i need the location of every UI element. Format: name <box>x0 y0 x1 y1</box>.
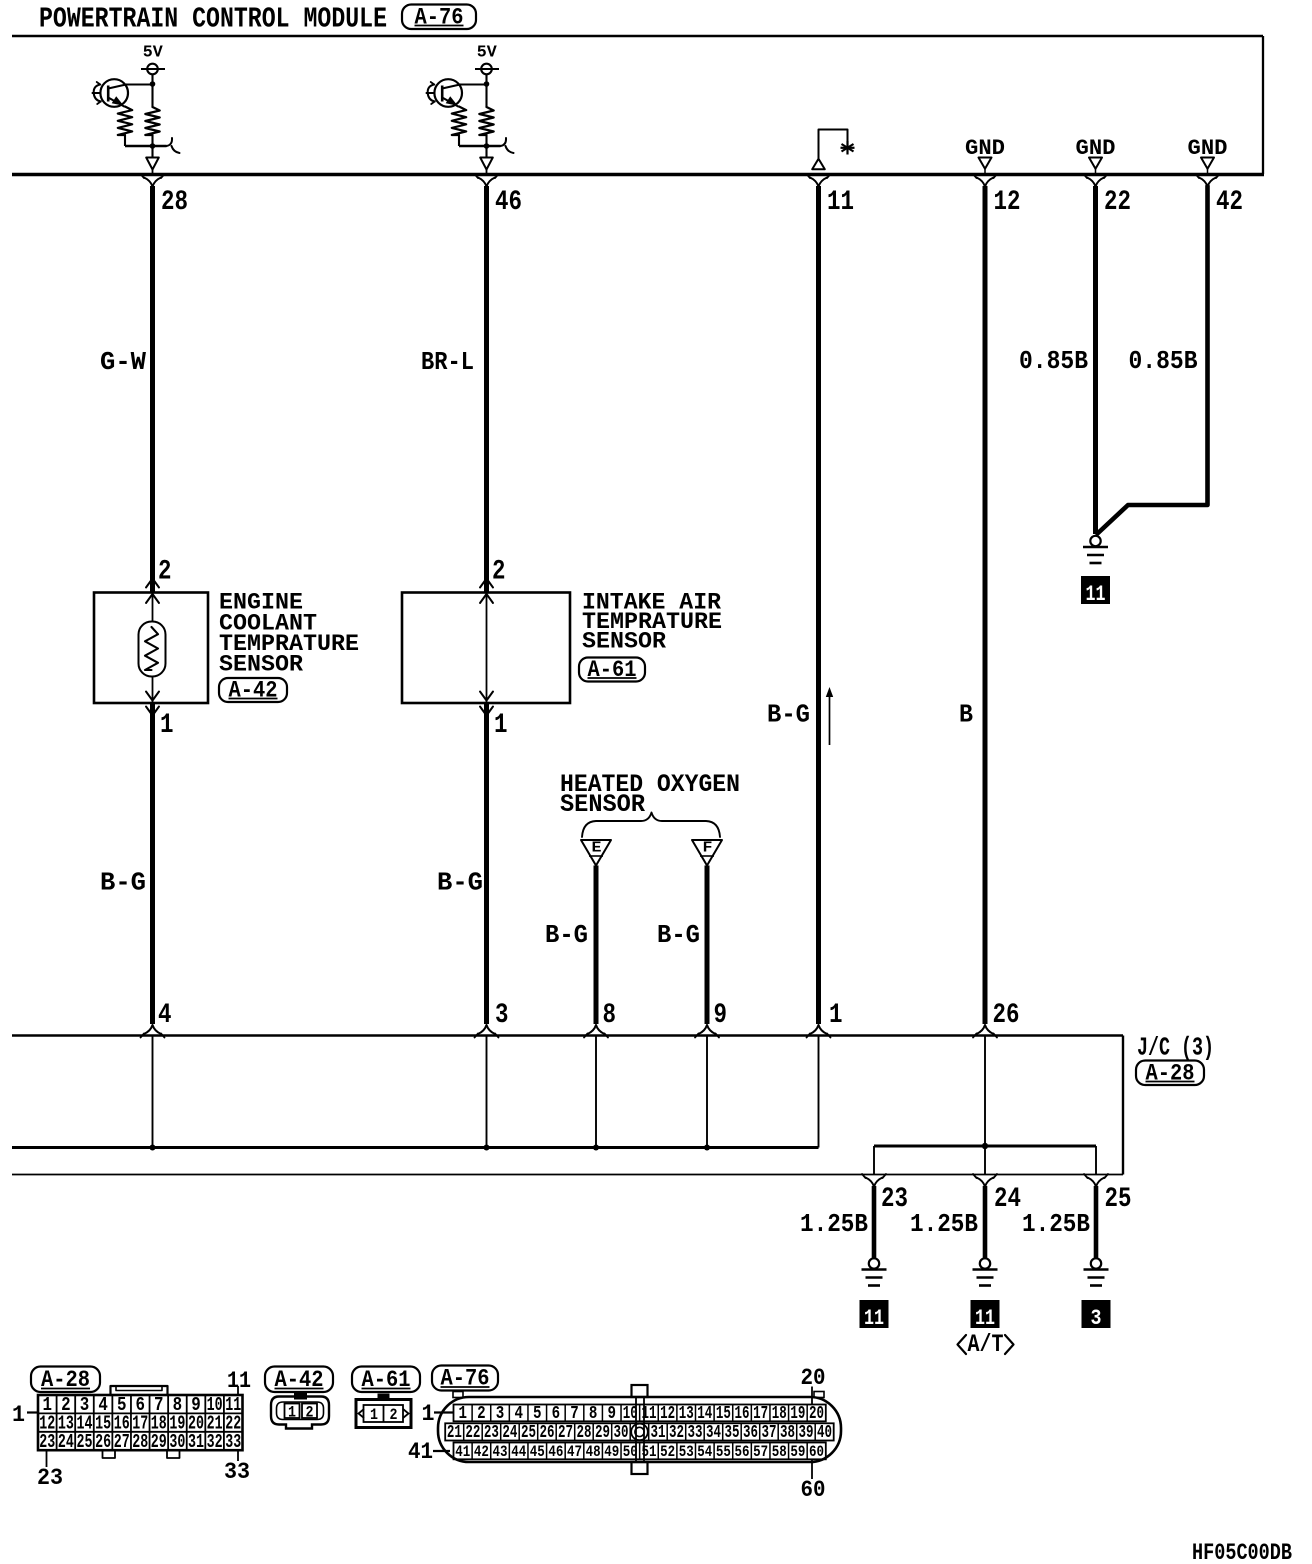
wire BR-L: PCM pin 46 down to IAT sensor <box>484 186 489 592</box>
svg-text:A-61: A-61 <box>588 657 637 683</box>
svg-text:4: 4 <box>514 1404 523 1424</box>
svg-text:39: 39 <box>799 1423 814 1443</box>
connector label (A-42) bottom <box>265 1367 333 1393</box>
svg-text:25: 25 <box>1105 1184 1132 1215</box>
pull-up resistor (left) <box>118 107 132 136</box>
svg-text:27: 27 <box>114 1431 130 1453</box>
svg-text:49: 49 <box>604 1443 619 1461</box>
svg-text:42: 42 <box>474 1443 489 1461</box>
svg-text:30: 30 <box>614 1423 629 1443</box>
bus junction dot <box>150 1145 156 1151</box>
svg-text:42: 42 <box>1216 187 1243 218</box>
ground wire from J/C pin 25 <box>1094 1186 1099 1258</box>
transistor base bar <box>441 86 444 102</box>
J/C internal wire at x=596 <box>595 1037 597 1148</box>
connector label (A-61) bottom <box>352 1367 420 1393</box>
svg-text:1: 1 <box>459 1404 468 1424</box>
brace over oxygen sensor terminals <box>582 813 720 838</box>
transistor circuit Q2 (pin 46 pull-up) <box>426 43 514 174</box>
svg-text:11: 11 <box>975 1306 995 1331</box>
svg-text:25: 25 <box>77 1431 93 1453</box>
svg-text:29: 29 <box>595 1423 610 1443</box>
junction dot <box>484 143 490 149</box>
svg-text:34: 34 <box>706 1423 721 1443</box>
ground wire from J/C pin 23 <box>872 1186 877 1258</box>
junction dot <box>484 81 490 87</box>
svg-text:16: 16 <box>735 1404 750 1424</box>
asterisk <box>842 144 854 152</box>
svg-text:25: 25 <box>521 1423 536 1443</box>
junction dot <box>150 143 156 149</box>
svg-text:35: 35 <box>725 1423 740 1443</box>
svg-text:20: 20 <box>801 1365 826 1391</box>
svg-text:7: 7 <box>570 1404 579 1424</box>
svg-text:23: 23 <box>484 1423 499 1443</box>
svg-text:G-W: G-W <box>100 347 146 377</box>
wire through ECT sensor <box>152 593 154 704</box>
base stub hook <box>94 85 101 102</box>
drop to J/C pin 24 <box>984 1146 986 1175</box>
PCM pin 11 connector fork <box>810 178 827 187</box>
svg-text:8: 8 <box>603 1000 617 1031</box>
svg-text:B: B <box>959 699 973 729</box>
connector chevron inside box bottom <box>146 692 159 701</box>
ground wire from J/C pin 24 <box>983 1186 988 1258</box>
svg-text:5V: 5V <box>477 43 497 62</box>
svg-text:24: 24 <box>994 1184 1021 1215</box>
connector chevron below box <box>146 707 159 716</box>
svg-text:1: 1 <box>422 1401 435 1427</box>
A-28 latch tab top <box>111 1386 168 1395</box>
ground point 11 marker <box>971 1300 1000 1328</box>
svg-text:30: 30 <box>169 1431 185 1453</box>
svg-text:F: F <box>703 840 713 857</box>
svg-text:26: 26 <box>993 1000 1020 1031</box>
svg-text:19: 19 <box>790 1404 805 1424</box>
J/C pin 1 connector fork <box>810 1025 827 1034</box>
svg-text:12: 12 <box>660 1404 675 1424</box>
wire to output <box>485 146 487 157</box>
svg-text:60: 60 <box>809 1443 824 1461</box>
svg-text:23: 23 <box>39 1431 55 1453</box>
svg-text:31: 31 <box>651 1423 666 1443</box>
J/C box bottom line <box>12 1174 1123 1176</box>
svg-text:33: 33 <box>688 1423 703 1443</box>
transistor base bar <box>107 86 110 102</box>
chassis ground for pins 22/42 <box>1090 536 1100 546</box>
J/C internal wire at x=818.5 <box>818 1037 820 1148</box>
connector chevron inside box bottom <box>480 692 493 701</box>
svg-text:5: 5 <box>533 1404 542 1424</box>
bus junction dot <box>704 1145 710 1151</box>
chassis ground 3 <box>1091 1258 1101 1268</box>
svg-text:3: 3 <box>495 1000 509 1031</box>
svg-text:1: 1 <box>370 1406 378 1424</box>
open arrow to PCM pin <box>146 158 159 170</box>
svg-text:33: 33 <box>225 1431 241 1453</box>
wire G-W: PCM pin 28 down to ECT sensor <box>150 186 155 592</box>
junction dot <box>150 81 156 87</box>
svg-text:41: 41 <box>408 1439 433 1465</box>
J/C pin 24 exit fork <box>977 1178 994 1187</box>
svg-text:41: 41 <box>455 1443 470 1461</box>
transistor circle <box>100 79 128 107</box>
direction arrow beside wire 11 <box>829 692 831 745</box>
svg-text:BR-L: BR-L <box>421 347 474 377</box>
svg-text:18: 18 <box>772 1404 787 1424</box>
transistor circle <box>434 79 462 107</box>
PCM pin 22 connector fork <box>1087 178 1104 187</box>
pull-up resistor (right) <box>145 107 159 135</box>
base stub hook <box>428 85 435 102</box>
connector label (A-61) <box>579 657 645 683</box>
collector lead <box>442 85 460 89</box>
svg-text:SENSOR: SENSOR <box>560 790 645 819</box>
A-28 bottom tab right <box>167 1451 180 1459</box>
svg-text:11: 11 <box>1086 582 1106 607</box>
svg-text:53: 53 <box>679 1443 694 1461</box>
svg-text:58: 58 <box>772 1443 787 1461</box>
svg-text:POWERTRAIN CONTROL MODULE: POWERTRAIN CONTROL MODULE <box>39 3 387 36</box>
svg-text:8: 8 <box>589 1404 598 1424</box>
svg-text:14: 14 <box>697 1404 712 1424</box>
svg-text:22: 22 <box>1104 187 1131 218</box>
5V supply terminal circle <box>481 64 492 75</box>
svg-text:2: 2 <box>158 557 172 588</box>
connector chevron inside box top <box>146 594 159 603</box>
ENGINE COOLANT TEMPERATURE SENSOR box A-42 <box>94 593 208 704</box>
svg-text:27: 27 <box>558 1423 573 1443</box>
svg-text:12: 12 <box>994 187 1021 218</box>
svg-text:57: 57 <box>753 1443 768 1461</box>
HOS terminal E triangle <box>581 840 611 866</box>
bottom junction wire <box>459 145 501 148</box>
svg-text:29: 29 <box>151 1431 167 1453</box>
wire 5V to resistor <box>485 74 487 107</box>
svg-text:0.85B: 0.85B <box>1129 346 1198 376</box>
thermistor symbol <box>139 622 166 677</box>
svg-text:B-G: B-G <box>545 920 588 950</box>
svg-text:6: 6 <box>552 1404 561 1424</box>
svg-text:3: 3 <box>1091 1306 1102 1331</box>
pin 11 internal open-triangle and asterisk link <box>812 130 854 170</box>
svg-text:60: 60 <box>801 1477 826 1503</box>
ground point 11 marker <box>1081 576 1110 604</box>
svg-text:17: 17 <box>753 1404 768 1424</box>
svg-text:B-G: B-G <box>657 920 700 950</box>
emitter lead <box>442 98 459 107</box>
svg-text:22: 22 <box>465 1423 480 1443</box>
drop to J/C pin 23 <box>873 1146 875 1175</box>
connector chevron below box <box>480 707 493 716</box>
5V supply terminal circle <box>147 64 158 75</box>
svg-text:1: 1 <box>829 1000 843 1031</box>
svg-text:1: 1 <box>288 1404 296 1422</box>
J/C internal wire at x=152.5 <box>152 1037 154 1148</box>
svg-text:26: 26 <box>95 1431 111 1453</box>
PCM pin 28 connector fork <box>144 178 161 187</box>
svg-text:24: 24 <box>58 1431 74 1453</box>
svg-text:21: 21 <box>447 1423 462 1443</box>
open arrow to PCM pin <box>480 158 493 170</box>
svg-text:43: 43 <box>493 1443 508 1461</box>
svg-text:45: 45 <box>530 1443 545 1461</box>
svg-text:48: 48 <box>586 1443 601 1461</box>
svg-text:37: 37 <box>762 1423 777 1443</box>
svg-text:9: 9 <box>714 1000 728 1031</box>
svg-text:13: 13 <box>679 1404 694 1424</box>
svg-text:B-G: B-G <box>100 867 146 897</box>
wire B: PCM pin 12 down through J/C <box>983 186 988 1024</box>
svg-text:26: 26 <box>540 1423 555 1443</box>
connector label (A-28) bottom <box>31 1367 100 1393</box>
J/C internal wire at x=486.5 <box>486 1037 488 1148</box>
svg-text:28: 28 <box>161 187 188 218</box>
wire B-G: IAT sensor down to J/C pin 3 <box>484 703 489 1024</box>
svg-text:1.25B: 1.25B <box>1022 1209 1090 1239</box>
bus junction dot (B wire) <box>982 1143 988 1149</box>
svg-text:1.25B: 1.25B <box>910 1209 978 1239</box>
svg-text:J/C (3): J/C (3) <box>1137 1032 1214 1062</box>
connector label (A-28) <box>1136 1060 1204 1086</box>
PCM pin 42 connector fork <box>1199 178 1216 187</box>
wire B-G: HOS F to J/C pin 9 <box>705 866 710 1025</box>
svg-text:SENSOR: SENSOR <box>582 628 666 654</box>
svg-text:15: 15 <box>716 1404 731 1424</box>
sensor-ground bus inside J/C <box>12 1146 819 1149</box>
svg-text:4: 4 <box>158 1000 172 1031</box>
A-76 latch channel right <box>643 1397 645 1462</box>
J/C pin 3 connector fork <box>478 1025 495 1034</box>
svg-text:0.85B: 0.85B <box>1019 346 1088 376</box>
A-28 bottom tab left <box>103 1451 116 1459</box>
A-28 latch tab inner line <box>116 1386 162 1391</box>
wire pin 11 down to J/C <box>816 186 821 1024</box>
J/C pin 25 exit fork <box>1088 1178 1105 1187</box>
J/C box top line <box>12 1034 1123 1037</box>
emitter arrowhead <box>446 96 458 106</box>
wire 5V to resistor <box>151 74 153 107</box>
svg-text:52: 52 <box>660 1443 675 1461</box>
svg-text:36: 36 <box>743 1423 758 1443</box>
J/C internal wire (B) <box>984 1037 986 1147</box>
PCM box bottom line <box>12 173 1264 177</box>
chassis ground 11 <box>980 1258 990 1268</box>
J/C pin 9 connector fork <box>699 1025 716 1034</box>
svg-text:31: 31 <box>188 1431 204 1453</box>
emitter lead <box>108 98 125 107</box>
PCM pin 46 connector fork <box>478 178 495 187</box>
INTAKE AIR TEMPERATURE SENSOR box A-61 <box>402 593 570 704</box>
svg-text:A-28: A-28 <box>1146 1060 1195 1086</box>
drop to J/C pin 25 <box>1095 1146 1097 1175</box>
J/C pin 23 exit fork <box>866 1178 883 1187</box>
svg-text:B-G: B-G <box>767 699 810 729</box>
svg-text:32: 32 <box>207 1431 223 1453</box>
wire 0.85B: PCM pin 42 down, left, joining pin 22 ground <box>1098 186 1208 534</box>
wire 0.85B: PCM pin 22 down to ground <box>1093 186 1098 534</box>
svg-text:46: 46 <box>548 1443 563 1461</box>
svg-text:59: 59 <box>790 1443 805 1461</box>
svg-text:A/T: A/T <box>968 1330 1004 1359</box>
svg-text:47: 47 <box>567 1443 582 1461</box>
svg-text:23: 23 <box>881 1184 908 1215</box>
svg-text:2: 2 <box>306 1404 314 1422</box>
svg-text:1: 1 <box>494 710 508 741</box>
connector label (A-42) <box>219 678 287 704</box>
wire to output <box>151 146 153 157</box>
PCM pin 12 connector fork <box>977 178 994 187</box>
J/C internal wire at x=707 <box>706 1037 708 1148</box>
pull-up resistor (right) <box>479 107 493 135</box>
svg-text:2: 2 <box>492 557 506 588</box>
svg-text:11: 11 <box>864 1306 884 1331</box>
svg-text:9: 9 <box>607 1404 616 1424</box>
chassis ground 11 <box>869 1258 879 1268</box>
svg-text:2: 2 <box>477 1404 486 1424</box>
transistor circuit Q1 (pin 28 pull-up) <box>92 43 180 174</box>
wire stub hook <box>167 138 180 153</box>
connector label (A-76) at title <box>402 4 476 30</box>
svg-text:55: 55 <box>716 1443 731 1461</box>
svg-text:2: 2 <box>390 1406 398 1424</box>
svg-text:SENSOR: SENSOR <box>219 651 303 677</box>
J/C pin 4 connector fork <box>144 1025 161 1034</box>
connector chevron above box <box>146 579 159 588</box>
connector label (A-76) bottom <box>432 1366 498 1392</box>
bus junction dot <box>484 1145 490 1151</box>
svg-text:11: 11 <box>827 187 854 218</box>
wire junction to transistor collector <box>460 83 487 85</box>
wire junction to transistor collector <box>126 83 153 85</box>
J/C pin 26 connector fork <box>977 1025 994 1034</box>
J/C pin 8 connector fork <box>588 1025 605 1034</box>
A-76 latch channel left <box>635 1397 637 1462</box>
svg-text:46: 46 <box>495 187 522 218</box>
emitter arrowhead <box>112 96 124 106</box>
svg-text:3: 3 <box>496 1404 505 1424</box>
svg-text:E: E <box>592 840 602 857</box>
svg-text:28: 28 <box>132 1431 148 1453</box>
PCM box top line <box>12 35 1263 38</box>
wire B-G: ECT sensor down to J/C pin 4 <box>150 703 155 1024</box>
svg-text:33: 33 <box>224 1459 250 1485</box>
svg-text:1: 1 <box>160 710 174 741</box>
label <A/T> below ground point <box>958 1335 967 1354</box>
collector lead <box>108 85 126 89</box>
svg-text:HF05C00DB: HF05C00DB <box>1192 1540 1292 1564</box>
svg-text:1.25B: 1.25B <box>800 1209 868 1239</box>
svg-text:B-G: B-G <box>437 867 483 897</box>
svg-text:A-42: A-42 <box>229 678 278 704</box>
ground point 3 marker <box>1082 1300 1111 1328</box>
svg-text:56: 56 <box>735 1443 750 1461</box>
pull-up resistor (left) <box>452 107 466 136</box>
connector chevron inside box top <box>480 594 493 603</box>
svg-text:5V: 5V <box>143 43 163 62</box>
wire through IAT sensor <box>486 593 488 704</box>
svg-text:38: 38 <box>780 1423 795 1443</box>
svg-text:44: 44 <box>511 1443 526 1461</box>
svg-text:1: 1 <box>12 1402 25 1428</box>
svg-text:24: 24 <box>502 1423 517 1443</box>
svg-text:11: 11 <box>227 1368 251 1394</box>
svg-text:32: 32 <box>669 1423 684 1443</box>
svg-text:54: 54 <box>697 1443 712 1461</box>
svg-text:40: 40 <box>817 1423 832 1443</box>
bottom junction wire <box>125 145 167 148</box>
svg-text:20: 20 <box>809 1404 824 1424</box>
ground point 11 marker <box>860 1300 889 1328</box>
svg-text:28: 28 <box>577 1423 592 1443</box>
wire stub hook <box>501 138 514 153</box>
PCM box right edge <box>1262 36 1264 174</box>
svg-text:A-76: A-76 <box>415 4 464 30</box>
J/C box right edge <box>1122 1036 1124 1175</box>
svg-text:23: 23 <box>37 1465 63 1491</box>
connector chevron above box <box>480 579 493 588</box>
bus junction dot <box>593 1145 599 1151</box>
HOS terminal F triangle <box>692 840 722 866</box>
wire B-G: HOS E to J/C pin 8 <box>594 866 599 1025</box>
